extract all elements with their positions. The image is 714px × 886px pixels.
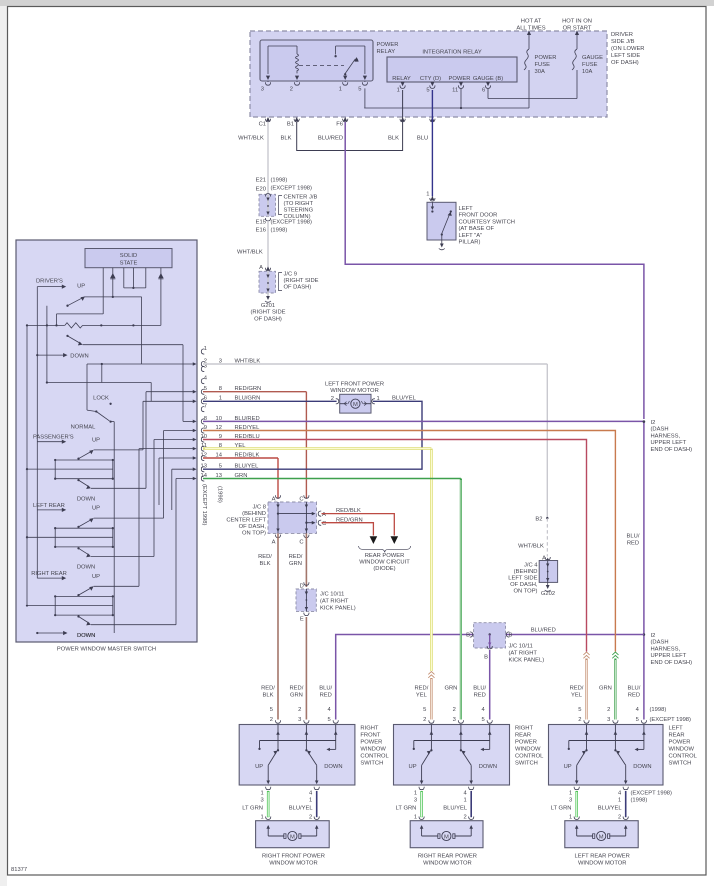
svg-text:(EXCEPT 1998): (EXCEPT 1998)	[271, 220, 313, 226]
svg-text:2: 2	[331, 396, 334, 402]
svg-text:(ON LOWER: (ON LOWER	[611, 46, 645, 52]
svg-text:RED: RED	[627, 541, 639, 547]
svg-text:5: 5	[423, 707, 426, 713]
svg-text:RED/GRN: RED/GRN	[336, 517, 363, 523]
svg-text:3: 3	[298, 717, 301, 723]
svg-text:OF DASH): OF DASH)	[254, 316, 282, 322]
svg-text:B: B	[484, 655, 488, 661]
svg-text:LEFT SIDE: LEFT SIDE	[611, 53, 640, 59]
svg-text:DOWN: DOWN	[479, 764, 497, 770]
svg-text:5: 5	[327, 717, 330, 723]
svg-text:10A: 10A	[582, 69, 592, 75]
svg-text:RED/: RED/	[570, 686, 584, 692]
svg-text:REAR POWER: REAR POWER	[365, 553, 405, 559]
svg-text:(DIODE): (DIODE)	[373, 566, 395, 572]
svg-text:M: M	[599, 834, 604, 840]
svg-text:LT GRN: LT GRN	[242, 806, 263, 812]
svg-text:RIGHT: RIGHT	[515, 726, 533, 732]
svg-text:RED: RED	[320, 693, 332, 699]
svg-text:3: 3	[569, 798, 572, 804]
svg-text:2: 2	[423, 717, 426, 723]
svg-text:(RIGHT SIDE: (RIGHT SIDE	[251, 310, 286, 316]
svg-text:(EXCEPT 1998): (EXCEPT 1998)	[271, 186, 313, 192]
svg-text:UP: UP	[92, 438, 100, 444]
svg-text:3: 3	[261, 87, 264, 93]
svg-text:YEL: YEL	[571, 693, 583, 699]
svg-text:5: 5	[481, 717, 484, 723]
svg-text:HARNESS,: HARNESS,	[651, 646, 681, 652]
svg-text:1: 1	[414, 815, 417, 821]
svg-text:ON TOP): ON TOP)	[514, 589, 538, 595]
svg-text:BLU/: BLU/	[627, 686, 640, 692]
svg-text:M: M	[290, 834, 295, 840]
svg-text:BLK: BLK	[388, 136, 399, 142]
svg-text:(AT RIGHT: (AT RIGHT	[320, 599, 349, 605]
svg-text:5: 5	[270, 707, 273, 713]
svg-text:3: 3	[453, 717, 456, 723]
svg-text:HARNESS,: HARNESS,	[651, 433, 681, 439]
svg-text:POWER: POWER	[515, 740, 537, 746]
svg-text:HOT IN ON: HOT IN ON	[562, 18, 592, 24]
svg-text:END OF DASH): END OF DASH)	[651, 447, 693, 453]
svg-text:B: B	[509, 633, 513, 639]
svg-text:7: 7	[204, 404, 207, 410]
svg-text:DOWN: DOWN	[77, 565, 95, 571]
svg-text:RED: RED	[628, 693, 640, 699]
svg-text:OF DASH): OF DASH)	[611, 60, 639, 66]
svg-text:E: E	[300, 617, 304, 623]
svg-text:J/C 10/11: J/C 10/11	[509, 644, 533, 650]
svg-text:UPPER LEFT: UPPER LEFT	[651, 440, 687, 446]
svg-text:5: 5	[426, 88, 429, 94]
svg-text:E15: E15	[256, 220, 266, 226]
svg-text:FRONT: FRONT	[360, 733, 380, 739]
svg-text:GRN: GRN	[599, 686, 612, 692]
svg-text:BLU: BLU	[417, 136, 428, 142]
svg-text:CONTROL: CONTROL	[360, 754, 389, 760]
svg-text:RELAY: RELAY	[377, 49, 396, 55]
svg-text:(EXCEPT 1998): (EXCEPT 1998)	[631, 791, 673, 797]
svg-text:(TO RIGHT: (TO RIGHT	[284, 201, 314, 207]
svg-text:HOT AT: HOT AT	[521, 18, 542, 24]
svg-text:LT GRN: LT GRN	[396, 806, 417, 812]
svg-text:DOWN: DOWN	[324, 764, 342, 770]
svg-text:PASSENGER'S: PASSENGER'S	[33, 435, 74, 441]
svg-text:(1998): (1998)	[631, 798, 648, 804]
svg-text:FRONT DOOR: FRONT DOOR	[459, 213, 498, 219]
svg-text:OR START: OR START	[563, 25, 592, 31]
svg-text:UP: UP	[92, 574, 100, 580]
svg-text:WINDOW MOTOR: WINDOW MOTOR	[578, 861, 627, 867]
svg-text:C1: C1	[259, 122, 266, 128]
svg-text:GAUGE: GAUGE	[582, 55, 603, 61]
svg-text:RED: RED	[474, 693, 486, 699]
svg-text:INTEGRATION RELAY: INTEGRATION RELAY	[422, 50, 482, 56]
svg-text:1: 1	[569, 815, 572, 821]
svg-text:UP: UP	[409, 764, 417, 770]
svg-text:2: 2	[298, 707, 301, 713]
svg-text:(AT RIGHT: (AT RIGHT	[509, 651, 538, 657]
svg-text:A: A	[322, 512, 326, 518]
svg-text:WHT/BLK: WHT/BLK	[518, 544, 544, 550]
svg-text:WINDOW: WINDOW	[669, 747, 695, 753]
svg-text:I2: I2	[651, 420, 656, 426]
svg-text:POWER WINDOW MASTER SWITCH: POWER WINDOW MASTER SWITCH	[57, 647, 156, 653]
svg-text:OF DASH,: OF DASH,	[239, 524, 267, 530]
svg-text:2: 2	[270, 717, 273, 723]
svg-text:LEFT REAR: LEFT REAR	[33, 503, 65, 509]
svg-text:F6: F6	[336, 122, 343, 128]
svg-text:(RIGHT SIDE: (RIGHT SIDE	[284, 278, 319, 284]
svg-text:B1: B1	[287, 122, 294, 128]
svg-text:G201: G201	[261, 303, 275, 309]
svg-text:COURTESY SWITCH: COURTESY SWITCH	[459, 219, 515, 225]
svg-text:C: C	[299, 540, 303, 546]
svg-text:J/C 10/11: J/C 10/11	[320, 592, 344, 598]
svg-text:END OF DASH): END OF DASH)	[651, 660, 693, 666]
svg-text:(EXCEPT 1998): (EXCEPT 1998)	[201, 484, 207, 526]
svg-text:UP: UP	[92, 506, 100, 512]
svg-text:2: 2	[578, 717, 581, 723]
svg-text:LT GRN: LT GRN	[551, 806, 572, 812]
svg-text:SOLID: SOLID	[120, 253, 137, 259]
svg-text:5: 5	[636, 717, 639, 723]
svg-text:DOWN: DOWN	[77, 633, 95, 639]
svg-text:BLK: BLK	[281, 136, 292, 142]
svg-text:WINDOW MOTOR: WINDOW MOTOR	[269, 861, 318, 867]
svg-text:DOWN: DOWN	[70, 354, 88, 360]
svg-text:1: 1	[260, 815, 263, 821]
svg-text:5: 5	[578, 707, 581, 713]
svg-text:OF DASH,: OF DASH,	[510, 582, 538, 588]
svg-text:POWER: POWER	[449, 76, 471, 82]
svg-text:ALL TIMES: ALL TIMES	[516, 25, 545, 31]
svg-text:3: 3	[414, 798, 417, 804]
svg-text:YEL: YEL	[416, 693, 428, 699]
svg-text:B2: B2	[535, 516, 542, 522]
svg-text:(1998): (1998)	[650, 707, 667, 713]
svg-text:RED/: RED/	[289, 554, 303, 560]
svg-text:CENTER J/B: CENTER J/B	[284, 195, 318, 201]
svg-text:E21: E21	[256, 178, 266, 184]
svg-text:(BEHIND: (BEHIND	[514, 569, 538, 575]
svg-text:GRN: GRN	[444, 686, 457, 692]
svg-text:RIGHT REAR POWER: RIGHT REAR POWER	[418, 854, 477, 860]
svg-text:(1998): (1998)	[217, 486, 223, 503]
svg-text:J/C 9: J/C 9	[284, 272, 298, 278]
svg-text:COLUMN): COLUMN)	[284, 214, 311, 220]
svg-text:POWER: POWER	[669, 740, 691, 746]
svg-text:SWITCH: SWITCH	[360, 761, 383, 767]
svg-text:1: 1	[309, 798, 312, 804]
svg-text:RIGHT REAR: RIGHT REAR	[31, 571, 67, 577]
svg-text:GAUGE (B): GAUGE (B)	[473, 76, 503, 82]
svg-text:(EXCEPT 1998): (EXCEPT 1998)	[650, 717, 692, 723]
svg-text:UPPER LEFT: UPPER LEFT	[651, 653, 687, 659]
svg-text:(1998): (1998)	[271, 228, 288, 234]
svg-text:WHT/BLK: WHT/BLK	[238, 136, 264, 142]
svg-text:RED/: RED/	[289, 686, 303, 692]
svg-text:30A: 30A	[535, 69, 545, 75]
svg-text:2: 2	[618, 815, 621, 821]
svg-text:J/C 8: J/C 8	[252, 505, 266, 511]
svg-text:1: 1	[339, 87, 342, 93]
svg-text:BLU/RED: BLU/RED	[531, 628, 556, 634]
svg-text:BLK: BLK	[263, 693, 274, 699]
svg-text:RED/BLK: RED/BLK	[336, 508, 361, 514]
svg-text:BLK: BLK	[260, 561, 271, 567]
svg-text:FUSE: FUSE	[535, 62, 551, 68]
svg-text:1: 1	[204, 346, 207, 352]
svg-text:RELAY: RELAY	[392, 76, 411, 82]
svg-text:RED/: RED/	[258, 554, 272, 560]
svg-text:FUSE: FUSE	[582, 62, 598, 68]
svg-text:A: A	[259, 265, 263, 271]
svg-text:DOWN: DOWN	[633, 764, 651, 770]
svg-text:WHT/BLK: WHT/BLK	[237, 250, 263, 256]
svg-text:BLU/YEL: BLU/YEL	[598, 806, 623, 812]
svg-text:(DASH: (DASH	[651, 427, 669, 433]
svg-text:5: 5	[358, 87, 361, 93]
svg-text:BLU/: BLU/	[319, 686, 332, 692]
svg-text:A: A	[272, 540, 276, 546]
svg-text:(AT BASE OF: (AT BASE OF	[459, 226, 495, 232]
svg-text:BLU/: BLU/	[473, 686, 486, 692]
svg-text:UP: UP	[77, 284, 85, 290]
svg-text:BLU/YEL: BLU/YEL	[289, 806, 314, 812]
svg-text:BLU/RED: BLU/RED	[318, 136, 343, 142]
svg-text:1: 1	[569, 791, 572, 797]
svg-text:LEFT "A": LEFT "A"	[459, 233, 483, 239]
svg-text:LEFT: LEFT	[459, 206, 474, 212]
svg-text:SWITCH: SWITCH	[669, 761, 692, 767]
svg-text:GRN: GRN	[290, 693, 303, 699]
svg-text:LEFT REAR POWER: LEFT REAR POWER	[575, 854, 630, 860]
svg-text:POWER: POWER	[360, 740, 382, 746]
svg-text:DOWN: DOWN	[77, 497, 95, 503]
svg-text:CENTER LEFT: CENTER LEFT	[226, 518, 266, 524]
svg-text:M: M	[353, 402, 358, 408]
svg-text:DRIVER: DRIVER	[611, 32, 633, 38]
svg-text:2: 2	[463, 815, 466, 821]
svg-text:C: C	[322, 521, 326, 527]
svg-text:(BEHIND: (BEHIND	[242, 511, 266, 517]
svg-text:1: 1	[414, 791, 417, 797]
svg-text:2: 2	[290, 87, 293, 93]
svg-text:CONTROL: CONTROL	[515, 754, 544, 760]
svg-text:DRIVER'S: DRIVER'S	[36, 279, 63, 285]
svg-text:WINDOW MOTOR: WINDOW MOTOR	[423, 861, 472, 867]
svg-text:I2: I2	[651, 633, 656, 639]
svg-text:1: 1	[426, 192, 429, 198]
svg-text:M: M	[444, 834, 449, 840]
svg-text:6: 6	[482, 88, 485, 94]
svg-text:POWER: POWER	[535, 55, 557, 61]
svg-text:LEFT SIDE: LEFT SIDE	[508, 576, 537, 582]
svg-text:G202: G202	[541, 591, 555, 597]
svg-text:2: 2	[453, 707, 456, 713]
svg-text:1: 1	[618, 798, 621, 804]
svg-text:CTY (D): CTY (D)	[420, 76, 441, 82]
svg-text:STATE: STATE	[120, 261, 138, 267]
svg-text:ON TOP): ON TOP)	[242, 531, 266, 537]
svg-text:RED/: RED/	[414, 686, 428, 692]
svg-text:POWER: POWER	[377, 42, 399, 48]
svg-text:SWITCH: SWITCH	[515, 761, 538, 767]
svg-text:1: 1	[397, 88, 400, 94]
svg-text:J/C 4: J/C 4	[524, 563, 538, 569]
svg-text:OF DASH): OF DASH)	[284, 285, 312, 291]
svg-text:PILLAR): PILLAR)	[459, 240, 481, 246]
svg-text:WINDOW: WINDOW	[515, 747, 541, 753]
svg-text:BLU/: BLU/	[627, 534, 640, 540]
svg-text:1: 1	[463, 798, 466, 804]
svg-text:STEERING: STEERING	[284, 208, 314, 214]
svg-text:KICK PANEL): KICK PANEL)	[509, 658, 545, 664]
svg-text:BLU/YEL: BLU/YEL	[443, 806, 468, 812]
svg-text:(1998): (1998)	[271, 178, 288, 184]
svg-text:CONTROL: CONTROL	[669, 754, 698, 760]
svg-text:LEFT: LEFT	[669, 726, 684, 732]
svg-text:LOCK: LOCK	[93, 396, 109, 402]
svg-text:UP: UP	[255, 764, 263, 770]
svg-text:3: 3	[260, 798, 263, 804]
svg-text:2: 2	[607, 707, 610, 713]
svg-text:GRN: GRN	[289, 561, 302, 567]
svg-text:RIGHT: RIGHT	[360, 726, 378, 732]
svg-text:3: 3	[607, 717, 610, 723]
svg-text:E16: E16	[256, 228, 266, 234]
svg-text:NORMAL: NORMAL	[71, 425, 97, 431]
svg-text:WINDOW: WINDOW	[360, 747, 386, 753]
svg-text:2: 2	[309, 815, 312, 821]
svg-text:WINDOW CIRCUIT: WINDOW CIRCUIT	[359, 560, 410, 566]
svg-text:1: 1	[260, 791, 263, 797]
svg-text:11: 11	[452, 88, 458, 94]
svg-text:LEFT FRONT POWER: LEFT FRONT POWER	[325, 382, 384, 388]
svg-text:RED/: RED/	[261, 686, 275, 692]
svg-text:WINDOW MOTOR: WINDOW MOTOR	[330, 388, 379, 394]
svg-text:81377: 81377	[11, 867, 27, 873]
svg-text:E20: E20	[256, 187, 266, 193]
svg-text:B: B	[466, 633, 470, 639]
svg-text:REAR: REAR	[669, 733, 685, 739]
svg-text:UP: UP	[564, 764, 572, 770]
svg-text:(DASH: (DASH	[651, 640, 669, 646]
svg-text:REAR: REAR	[515, 733, 531, 739]
svg-text:SIDE J/B: SIDE J/B	[611, 39, 635, 45]
svg-text:BLU/YEL: BLU/YEL	[392, 396, 417, 402]
svg-text:KICK PANEL): KICK PANEL)	[320, 606, 356, 612]
svg-text:RIGHT FRONT POWER: RIGHT FRONT POWER	[262, 854, 325, 860]
